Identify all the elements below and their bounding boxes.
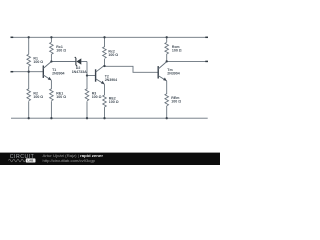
svg-text:100 Ω: 100 Ω [171,100,181,104]
svg-text:100 Ω: 100 Ω [92,95,102,99]
svg-text:2N3904: 2N3904 [52,72,64,76]
svg-text:100 Ω: 100 Ω [33,95,43,99]
svg-text:1N4733A: 1N4733A [72,70,87,74]
svg-text:100 Ω: 100 Ω [109,100,119,104]
svg-text:Artur Ujvári (Rajz) | rapid ze: Artur Ujvári (Rajz) | rapid zener [43,153,104,158]
svg-text:2N3904: 2N3904 [167,71,179,75]
svg-text:100 Ω: 100 Ω [33,60,43,64]
svg-text:100 Ω: 100 Ω [108,53,118,57]
svg-text:100 Ω: 100 Ω [56,49,66,53]
svg-text:100 Ω: 100 Ω [56,95,66,99]
svg-text:http://circuitlab.com/cv93cgp: http://circuitlab.com/cv93cgp [43,159,96,163]
svg-text:LAB: LAB [27,159,33,163]
svg-text:100 Ω: 100 Ω [172,49,182,53]
svg-text:2N3904: 2N3904 [105,78,117,82]
